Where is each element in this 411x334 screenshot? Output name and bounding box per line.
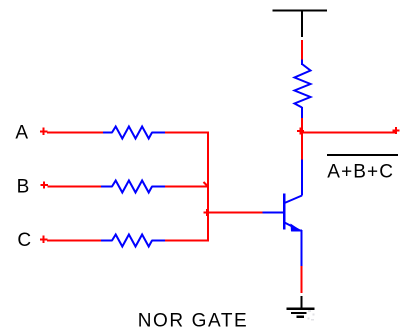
- svg-text:A: A: [15, 122, 28, 143]
- svg-text:C: C: [17, 230, 31, 251]
- svg-text:NOR GATE: NOR GATE: [138, 311, 249, 332]
- svg-text:A+B+C: A+B+C: [327, 161, 394, 182]
- svg-text:B: B: [17, 176, 30, 197]
